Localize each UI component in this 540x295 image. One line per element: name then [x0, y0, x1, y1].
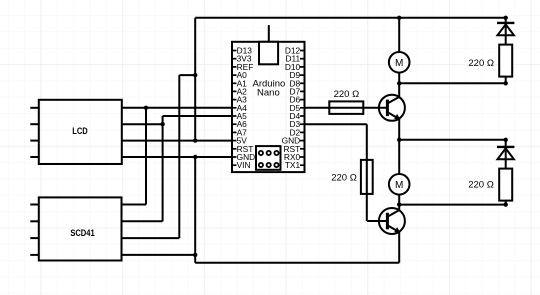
wire GND bottom run to Q2 emitter [195, 232, 399, 263]
node junction 5V branch [193, 73, 197, 77]
node junction GND [193, 155, 197, 159]
svg-text:220 Ω: 220 Ω [468, 58, 494, 69]
pin VIN (left) [232, 160, 251, 170]
pin A7 (left) [232, 127, 247, 137]
LCD module U2 [39, 100, 122, 164]
wire Arduino D5 to Q1 base [305, 107, 387, 109]
pin A6 (left) [232, 119, 247, 129]
wire motor2 bottom to R4 bottom [399, 204, 506, 206]
node junction R4 bottom [504, 202, 508, 206]
resistor R3 220 ohm [499, 45, 512, 77]
wire USB drop [268, 25, 270, 42]
svg-text:SCD41: SCD41 [70, 227, 95, 238]
wire LCD pin1 to Arduino A4 [122, 107, 232, 109]
pin TX1 (right) [285, 160, 305, 170]
wire LCD pin2 stub [122, 123, 163, 125]
node junction SCD41 pin4 [193, 253, 197, 257]
pin A4 (left) [232, 103, 247, 113]
pin D9 (right) [289, 70, 304, 80]
pin A0 (left) [232, 70, 247, 80]
wire top 5V rail [195, 17, 506, 19]
pin D10 (right) [285, 62, 305, 72]
pin 3V3 (left) [232, 54, 252, 64]
pin D4 (right) [289, 111, 304, 121]
wire 5V branch to SCD41 pin3 [122, 75, 196, 238]
wire flyback branch 1 vertical [505, 18, 507, 45]
node junction A4/SCD41 [144, 106, 148, 110]
wire LCD pin4 to Arduino GND [122, 156, 232, 158]
pin D2 (right) [289, 127, 304, 137]
pin D5 (right) [289, 103, 304, 113]
wire motor2 top [398, 140, 400, 174]
wire 5V vertical rail [194, 18, 196, 141]
pin RX0 (right) [284, 152, 305, 162]
node junction Q1 emitter / motor2 [397, 138, 401, 142]
pin D3 (right) [289, 119, 304, 129]
node junction R3 bottom [504, 81, 508, 85]
svg-text:TX1: TX1 [285, 160, 301, 170]
svg-text:220 Ω: 220 Ω [468, 180, 494, 191]
svg-text:220 Ω: 220 Ω [334, 89, 360, 100]
SCD41 sensor U3 [39, 197, 122, 260]
wire 5V rail to motor1 [398, 18, 400, 52]
node junction Q1 collector [397, 81, 401, 85]
transistor Q2 NPN [379, 205, 405, 234]
svg-text:220 Ω: 220 Ω [331, 172, 357, 183]
node junction LCD pin2 [160, 122, 164, 126]
transistor Q1 NPN [379, 83, 405, 140]
Arduino ICSP header [256, 146, 281, 170]
node junction motor1 top [397, 16, 401, 20]
svg-text:Nano: Nano [257, 88, 280, 99]
pin RST (right) [283, 144, 304, 154]
pin D8 (right) [289, 78, 304, 88]
pin A3 (left) [232, 95, 247, 105]
Arduino label [253, 78, 286, 98]
pin D7 (right) [289, 86, 304, 96]
node junction Q2 collector [397, 202, 401, 206]
wire Q1 emitter to diode2 top [399, 139, 506, 141]
wire LCD pin3 to Arduino 5V [122, 140, 232, 142]
resistor R4 220 ohm [499, 169, 512, 201]
pin D13 (left) [232, 46, 252, 56]
pin A5 (left) [232, 111, 247, 121]
LCD left pin stubs [30, 108, 39, 157]
wire R3 bottom [505, 77, 507, 84]
wire SCD41 pin4 stub [122, 254, 196, 256]
pin A1 (left) [232, 78, 247, 88]
wire vertical A5 rail to SCD41 pin2 [122, 116, 163, 221]
wire flyback branch 2 vertical [505, 140, 507, 169]
motor M1 [389, 52, 410, 73]
resistor R1 220 ohm [329, 101, 363, 114]
svg-text:M: M [395, 58, 403, 69]
pin A2 (left) [232, 86, 247, 96]
pin GND (right) [282, 136, 305, 146]
pin GND (left) [232, 152, 255, 162]
wire R4 bottom [505, 201, 507, 205]
pin REF (left) [232, 62, 253, 72]
node junction diode2 top [504, 138, 508, 142]
svg-text:LCD: LCD [72, 125, 88, 136]
pin D12 (right) [285, 46, 305, 56]
Arduino Nano U1 body [232, 42, 305, 172]
svg-text:M: M [395, 180, 403, 191]
SCD41 left pin stubs [30, 205, 39, 255]
diode D2 [497, 147, 514, 159]
pin 5V (left) [232, 136, 247, 146]
node junction 5V [193, 138, 197, 142]
pin D6 (right) [289, 95, 304, 105]
resistor R2 220 ohm [361, 160, 373, 194]
node junction diode1 top [504, 16, 508, 20]
motor M2 [389, 174, 410, 195]
wire motor1 bottom to R3 bottom [399, 82, 506, 84]
pin D11 (right) [285, 54, 304, 64]
wire Arduino D3 to R2 to Q2 base [305, 124, 387, 221]
wire GND vertical rail [194, 157, 196, 263]
svg-text:VIN: VIN [237, 160, 251, 170]
pin RST (left) [232, 144, 253, 154]
Arduino USB connector notch [259, 42, 278, 65]
wire Arduino A5 horizontal [163, 115, 232, 117]
wire motor1 to collector node [398, 73, 400, 84]
wire motor2 to collector node [398, 195, 400, 205]
wire vertical A4 rail to SCD41 pin1 [122, 108, 147, 205]
diode D1 [497, 23, 514, 35]
